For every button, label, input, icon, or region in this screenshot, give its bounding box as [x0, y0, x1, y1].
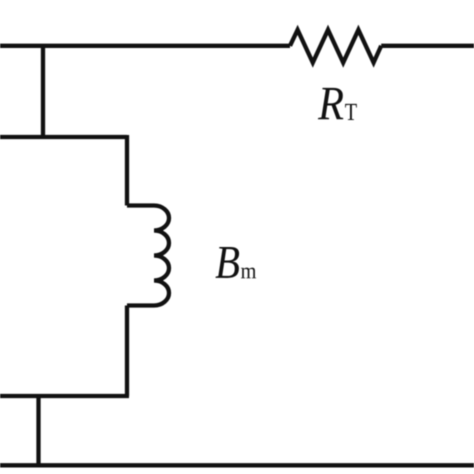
- wire box bottom edge: [0, 394, 129, 398]
- wire box right edge lower: [125, 306, 129, 397]
- wire top horizontal left of resistor: [0, 44, 290, 48]
- wire top horizontal right of resistor: [381, 44, 474, 48]
- label B of Bm: [215, 247, 239, 278]
- wire vertical from box bottom to bottom wire: [36, 396, 40, 465]
- wire vertical from top wire to box top node: [41, 46, 45, 137]
- resistor RT: [290, 30, 381, 63]
- label m subscript of Bm: [241, 268, 256, 279]
- wire box top edge: [0, 135, 127, 139]
- inductor Bm coil: [127, 206, 169, 306]
- wire box right edge upper: [125, 135, 129, 206]
- label R of RT: [318, 88, 343, 119]
- label T subscript of RT: [345, 104, 357, 120]
- wire bottom horizontal: [0, 463, 474, 467]
